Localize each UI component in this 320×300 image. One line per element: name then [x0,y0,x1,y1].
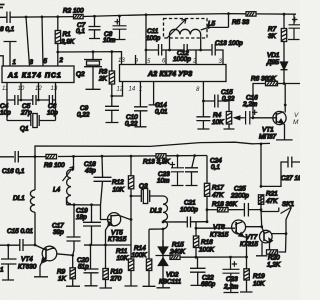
svg-text:18p: 18p [76,214,87,221]
node R12 Q3 [130,195,133,198]
diode VD1 [266,52,288,84]
capacitor C4 [0,95,21,117]
wire pin5 drop [42,17,48,66]
transistor VT6 KT315 [196,220,262,257]
node Q2 top [92,50,95,53]
wire pin5 column [145,15,147,65]
svg-text:R10: R10 [111,269,123,276]
node C19 tap [90,203,93,206]
wire lower feed [0,156,207,157]
wire pin1 drop [149,82,160,105]
wire pin12 drop [38,83,40,101]
node R15 R16 [195,256,198,259]
svg-text:C16 0,1: C16 0,1 [2,168,25,175]
svg-text:R8 100: R8 100 [44,162,65,169]
node C16 base [252,116,255,119]
svg-text:М: М [293,119,299,126]
svg-text:2,2m: 2,2m [223,284,239,291]
diode VD2 KBC111 varicap [156,240,182,288]
svg-text:R12: R12 [112,179,124,186]
capacitor C22 electrolytic right edge [288,14,300,39]
svg-text:10p: 10p [47,110,58,117]
capacitor C11 [146,28,162,56]
node R1 bottom [56,51,59,54]
node rail-C8 [118,15,121,18]
node R3 bottom [110,95,113,98]
capacitor C9 [77,96,119,123]
resistor R5 [232,12,256,26]
svg-text:13: 13 [51,85,58,92]
capacitor C15 [203,89,234,112]
capacitor C8 electrolytic [103,16,127,44]
svg-text:V: V [294,112,299,119]
transistor VT4 KT630 [18,245,73,277]
svg-text:C21: C21 [184,200,196,207]
capacitor C6 [39,95,59,117]
svg-text:КВС111: КВС111 [159,279,182,286]
svg-text:51p: 51p [78,264,89,271]
inductor DL1 [13,157,35,245]
svg-text:R1: R1 [63,31,72,38]
svg-text:C23: C23 [226,276,238,283]
wire mid supply rail [35,142,270,156]
node VT5 collector [130,218,133,221]
node R16 base [195,227,198,230]
capacitor C21 [163,200,207,228]
svg-text:Q2: Q2 [76,71,85,78]
svg-text:Q3: Q3 [139,183,148,190]
resistor R18 [207,201,244,212]
capacitor C18 [84,156,112,219]
node R21 C27 [260,185,263,188]
capacitor C15b input lower [0,228,35,251]
node R3 top [110,50,113,53]
capacitor C23 electrolytic [157,156,184,186]
node rail R21 [260,143,263,146]
crystal Q1 [7,114,56,133]
node VT4 out [71,254,74,257]
svg-text:8 0,1: 8 0,1 [0,26,15,33]
capacitor C input edge [0,244,17,280]
svg-text:R14: R14 [134,245,146,252]
wire pin10 drop [20,83,22,101]
svg-text:R20: R20 [268,255,280,262]
svg-text:1,2K: 1,2K [267,262,281,269]
capacitor C17 [52,205,81,256]
svg-text:14: 14 [129,86,136,93]
capacitor C19 [76,205,101,245]
svg-text:10m: 10m [103,37,116,44]
resistor R21 [258,144,278,227]
svg-text:39p: 39p [53,229,64,236]
inductor L4 [53,156,74,204]
capacitor C12 [173,44,191,63]
node rail-pin3 [25,16,28,19]
capacitor C16b input [2,151,25,175]
svg-text:2,2m: 2,2m [242,101,258,108]
svg-text:0,1: 0,1 [211,164,220,171]
capacitor C25 [230,186,261,217]
svg-text:А2 К174 УР3: А2 К174 УР3 [147,71,192,78]
node feed DL1 [34,155,37,158]
svg-text:47K: 47K [212,192,224,199]
svg-text:2: 2 [59,57,64,64]
capacitor C10 [125,107,148,128]
node C11 wire [145,49,148,52]
capacitor C27 [261,157,302,187]
svg-text:R11: R11 [116,248,128,255]
svg-text:SK1: SK1 [282,201,295,208]
wire DL2 to R14 [149,228,163,230]
resistor R17 [204,156,224,222]
node rail-R1 [56,15,59,18]
svg-text:100K: 100K [132,252,148,259]
resistor R9 [57,255,80,286]
svg-text:R19: R19 [253,273,265,280]
resistor R1 [55,17,75,66]
svg-text:R21: R21 [266,191,278,198]
svg-text:10K: 10K [212,119,224,126]
wire emitter bus [84,244,131,246]
svg-text:100p: 100p [146,35,161,42]
svg-text:L4: L4 [53,187,61,194]
resistor R11 [116,245,138,286]
svg-text:К7315: К7315 [240,241,258,248]
node rail-R7 [283,13,286,16]
node rail-L5 [227,12,230,15]
transistor VT7 KT315 [240,227,286,256]
svg-text:2K: 2K [98,76,108,83]
resistor R13 [143,154,170,166]
svg-text:DL2: DL2 [150,208,162,215]
resistor R2 [63,8,84,19]
node L5 right stem [199,49,202,52]
wire detector row [67,204,101,206]
svg-text:1: 1 [13,59,16,66]
svg-text:3K: 3K [268,33,277,40]
wire pin6 stub [165,50,167,65]
svg-text:Q1: Q1 [20,126,29,133]
resistor R16 [193,222,214,258]
svg-text:R7: R7 [268,26,277,33]
svg-text:680p: 680p [201,281,216,288]
resistor R6 [251,76,300,118]
node VD1 R6 [283,82,286,85]
resistor R12 [112,156,134,196]
node feed R12 [130,155,133,158]
svg-text:2: 2 [192,58,197,65]
wire pin8 drop [202,82,204,117]
svg-text:R13 3,9K: R13 3,9K [143,159,170,166]
svg-text:12: 12 [117,86,124,93]
svg-text:R2 100: R2 100 [63,8,84,15]
crystal Q2 [76,52,102,89]
pin labels A2 top [118,57,223,65]
node C17 tap [73,203,76,206]
capacitor C7 [76,16,101,38]
node pin12 cap [37,99,40,102]
svg-text:0,22: 0,22 [222,96,235,103]
node rail-C7 [93,15,96,18]
svg-text:0,01: 0,01 [155,109,168,116]
resistor R8 [44,154,65,169]
svg-text:А1 К174 ПС1: А1 К174 ПС1 [7,73,62,80]
svg-text:240K: 240K [169,249,186,256]
inductor L5 dashed box [164,19,208,39]
svg-text:10K: 10K [253,281,265,288]
svg-text:0,22: 0,22 [77,112,90,119]
node rail-pin5 [41,16,44,19]
node R21 SK1 [260,208,263,211]
svg-text:L5: L5 [208,21,216,28]
node R17 C21 [206,220,209,223]
wire pin14 drop [139,82,141,107]
inductor L5 coil [167,14,229,50]
node DL2 C21 [162,221,165,224]
transistor VT5 KT315 [106,213,132,245]
svg-text:R16: R16 [201,239,213,246]
resistor R7 [268,14,287,61]
svg-text:270: 270 [110,276,122,283]
resistor R19 [240,257,265,292]
node R17 R18 [206,208,209,211]
inductor DL2 [150,196,168,247]
svg-text:2200p: 2200p [230,193,249,200]
svg-text:10K: 10K [117,255,129,262]
svg-text:R6 360K: R6 360K [251,76,277,83]
pin labels A1 bottom [2,85,58,92]
op-amp U1 / IC A1 K174PS1 box [2,66,74,83]
crystal Q3 [131,183,163,204]
svg-text:C25: C25 [234,186,246,193]
svg-text:C11: C11 [147,28,159,35]
svg-text:0,1: 0,1 [76,28,85,35]
svg-text:Д9Б: Д9Б [266,59,279,66]
capacitor C23b electrolytic output [223,257,240,292]
node L5 left stem [168,49,171,52]
resistor R14 [132,229,156,286]
svg-text:C13 100p: C13 100p [215,40,243,47]
svg-text:C27 18: C27 18 [281,175,300,182]
transistor VT2 labels cut at edge [293,112,299,126]
svg-text:10p: 10p [0,110,11,117]
svg-text:1000p: 1000p [173,56,191,63]
svg-text:VT1: VT1 [262,127,274,134]
antenna stub pin1 [4,42,17,67]
wire left edge stub [0,56,3,66]
node DL2 R14 [162,228,165,231]
capacitor C3 input (left edge) [0,12,15,34]
node VT7 collector [285,232,288,235]
node C19 C20 [89,244,92,247]
svg-text:47K: 47K [266,198,278,205]
svg-text:КТ315: КТ315 [210,232,229,239]
node pin8 [202,100,205,103]
svg-text:КТ315: КТ315 [108,236,127,243]
switch SK1 [261,201,295,234]
corner mark [0,5,5,8]
wire pin11 drop [6,83,8,121]
svg-text:R9: R9 [57,269,66,276]
svg-text:DL1: DL1 [13,195,25,202]
node feed C24 [193,154,196,157]
svg-text:100K: 100K [199,247,215,254]
svg-text:43p: 43p [85,168,96,175]
svg-text:3,9K: 3,9K [61,39,75,46]
node VT6 emitter R19 [245,256,248,259]
capacitor C14 [155,102,210,129]
svg-text:МП37: МП37 [259,134,277,141]
node feed C18 [101,155,104,158]
wire R3 to pin12 [112,82,123,97]
svg-text:R5 33: R5 33 [232,19,249,26]
svg-text:13: 13 [118,57,125,64]
node pin10 cap [20,99,23,102]
svg-text:0,22: 0,22 [125,121,138,128]
wire R12 column [130,196,132,245]
resistor R15 [169,242,247,260]
svg-text:1000p: 1000p [180,207,198,214]
wire pin2 stub [195,50,197,65]
svg-text:R15: R15 [172,242,184,249]
svg-text:R17: R17 [212,185,224,192]
capacitor C13 [212,40,243,56]
resistor R3 [98,52,115,96]
node DL1 C15 [34,244,37,247]
potentiometer R4 [212,112,243,130]
node C23b tap [229,256,232,259]
svg-text:10K: 10K [113,187,125,194]
svg-text:10m: 10m [157,178,170,185]
pin labels A2 bottom [117,86,201,94]
wire top supply rail [0,14,296,18]
op-amp U2 / IC A2 K174UR3 box [120,65,227,82]
svg-text:R4: R4 [213,112,222,119]
wire coupling row [146,50,223,65]
transistor VT1 MP37 [253,84,293,141]
wire pin3 drop [26,17,34,66]
svg-text:1K: 1K [58,276,67,283]
wire pin13 drop [55,83,57,121]
svg-text:VD2: VD2 [166,272,179,279]
svg-text:VT4: VT4 [21,256,33,263]
node C23 feed [176,154,179,157]
wire R1 to A2 pin13 [58,52,122,65]
svg-text:VD1: VD1 [267,52,280,59]
capacitor C20 [77,245,99,286]
svg-text:КТ630: КТ630 [18,264,37,271]
svg-text:R18 36K: R18 36K [212,201,238,208]
resistor R20 [267,234,287,269]
node R10 bus [104,244,107,247]
resistor R10 [100,245,123,288]
svg-text:C15 0.01: C15 0.01 [7,228,33,235]
svg-text:1: 1 [0,267,4,274]
svg-text:R3: R3 [99,69,108,76]
wire pin9 stub [135,55,137,65]
node VT6 collector VT7 base [260,225,263,228]
capacitor C22 [190,257,216,288]
node rail-pin5col [145,13,148,16]
node feed L4 [72,155,75,158]
capacitor C16 electrolytic [242,95,258,125]
capacitor C5 [20,95,39,117]
capacitor C24 [185,156,222,186]
svg-text:VT6: VT6 [213,224,225,231]
